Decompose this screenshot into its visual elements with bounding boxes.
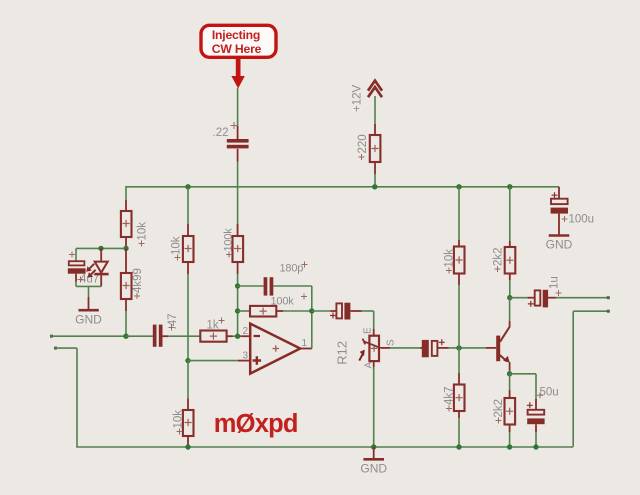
wire C out to R12 E [362,311,374,329]
ground bus wire [76,446,573,448]
svg-text:10k: 10k [173,410,185,429]
capacitor 4u7 [68,248,86,286]
wire pin3 to divider [188,360,238,362]
capacitor 50u [527,374,545,447]
node dot bus/4k7 [456,444,461,449]
node dot bus/50u [533,444,538,449]
svg-text:4k99: 4k99 [132,268,144,293]
svg-text:GND: GND [75,313,102,327]
node dot collector [507,295,512,300]
wire LED/C4u7 bottom join [76,285,101,287]
label 1k [207,318,225,332]
+12V supply symbol [368,81,382,98]
+12V bus wire [126,186,559,188]
potentiometer R12 [359,329,390,367]
label 100k [223,228,235,258]
svg-text:+12V: +12V [352,84,364,112]
node dot input/4k99 [123,334,128,339]
label 2k2 [493,399,505,424]
svg-text:100k: 100k [223,228,235,252]
wire emitter node to C 50u [510,373,536,375]
op-amp U1 [238,324,312,374]
svg-text:Injecting: Injecting [212,28,260,42]
wire output bottom [573,310,610,447]
node dot bus/10k-459 [456,184,461,189]
svg-text:1: 1 [302,338,308,349]
label 10k [173,410,185,435]
svg-text:180p: 180p [280,263,304,275]
svg-text:10k: 10k [171,236,183,255]
capacitor out (polarized) [330,303,362,320]
svg-text:S: S [386,339,397,346]
label 1u [549,276,562,296]
svg-text:E: E [363,327,374,334]
node dot bus/2k2 [507,184,512,189]
callout "Injecting CW Here" [201,25,276,57]
label .47 [167,314,179,331]
label 10k (right of box) [137,222,149,247]
resistor 100k (feedback) [238,306,312,317]
label 100k [271,294,308,308]
wire output node to C out [312,310,331,312]
wire node to LED branch [76,247,126,249]
wire bus down to R10k left column [125,186,127,200]
wire collector node to C .1u [510,297,528,299]
node dot pin2 [235,334,240,339]
svg-text:1u: 1u [549,276,561,289]
wire R12 S to C base [390,347,420,349]
wire from arrow to C .22 [237,88,239,126]
svg-text:2: 2 [243,326,249,337]
capacitor 100u [551,187,568,224]
resistor 220 [370,124,381,174]
wire collector to node [509,298,511,321]
label 180p [280,262,308,275]
node dot bus/R12 [371,444,376,449]
svg-text:A: A [364,362,375,369]
wire R12 A to ground bus [373,367,375,447]
node dot pin3 [185,358,190,363]
label 220 [357,134,369,160]
svg-text:100u: 100u [569,213,595,225]
label 4k7 [444,386,456,411]
svg-text:10k: 10k [444,249,456,268]
node dot emitter [507,371,512,376]
GND symbol (100u) [549,224,570,236]
svg-text:3: 3 [243,351,249,362]
wire C.47 to R1k [168,335,200,337]
capacitor 180p [238,277,312,295]
resistor 2k2 (emitter) [505,374,516,447]
svg-text:2k2: 2k2 [493,247,505,266]
injection arrow [231,59,244,89]
label 10k [171,236,183,260]
ground return wire (left) [54,347,77,447]
svg-text:4k7: 4k7 [444,386,456,405]
node dot LED anode [98,246,103,251]
node dot output/feedback [309,308,314,313]
capacitor .22 [227,126,249,162]
wire 10k to pin3 node (crosses signal wire, no dot) [187,274,189,361]
resistor 4k99 [121,248,132,311]
label 2k2 [493,247,505,272]
svg-text:1k: 1k [207,320,219,332]
GND symbol (LED branch) [79,286,99,310]
node dot 100k fb left [235,308,240,313]
resistor 4k7 [454,348,465,447]
wire C.22 to opamp node (crosses +12V bus, no dot) [237,162,239,237]
node dot bus/2k2 [507,444,512,449]
capacitor base coupling (polarized) [420,339,449,357]
svg-text:2k2: 2k2 [493,399,505,418]
wire 1k to pin2 node [233,335,238,337]
node dot base/4k7/10k [456,345,461,350]
label 50u [537,386,559,398]
wire 4k99 to input node [125,311,127,336]
wire +12V to R 220 [374,96,376,124]
svg-text:GND: GND [546,238,573,252]
resistor 10k (bias mid column) [183,187,194,274]
capacitor .1u (polarized) [528,290,556,308]
wire pin3 node down to 10k bottom [187,361,189,399]
label .22 [213,122,238,139]
resistor 100k (input bias top) [233,224,244,274]
label 100u [562,213,595,225]
node dot bus/10k [185,444,190,449]
GND symbol (bottom) [363,447,384,459]
capacitor .47 [126,325,168,347]
node dot bus/R220 [372,184,377,189]
resistor 10k (left bias top) [121,200,132,248]
resistor 2k2 (collector) [505,187,516,298]
node dot bus/10k-188 [185,184,190,189]
resistor 1k [200,331,232,342]
node dot 10k/4k99/LED [123,246,128,251]
wire 100k down to pin2 node [237,274,239,336]
node dot 180p left [235,283,240,288]
resistor 10k (right, top) [454,187,465,348]
resistor 10k (bias bottom) [183,399,194,448]
svg-text:CW Here: CW Here [212,42,262,56]
LED diode [86,248,108,286]
wire C base to base node [449,347,486,349]
input wire (left) [50,335,126,338]
svg-text:mØxpd: mØxpd [214,410,298,438]
svg-text:10k: 10k [137,222,149,241]
svg-text:220: 220 [357,134,369,153]
wire emitter to node [509,371,511,374]
wire R220 to bus [374,174,376,187]
svg-text:50u: 50u [540,386,559,398]
label 10k [444,249,456,274]
transistor Q1 [486,321,510,371]
wire output top [556,296,610,299]
label 4k99 [132,268,144,299]
svg-text:.22: .22 [213,127,229,139]
svg-text:GND: GND [360,462,387,476]
svg-text:R12: R12 [335,341,350,365]
svg-text:100k: 100k [271,296,295,308]
wire feedback right vertical [311,286,313,349]
